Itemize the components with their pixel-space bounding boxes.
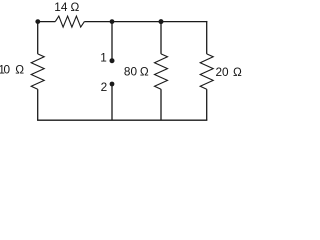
wire: 80 ohm branch upper segment [160,22,162,54]
junction dot: top rail above 80 ohm branch [159,19,164,24]
svg-text:Ω: Ω [71,0,80,14]
wire: top rail left segment [38,21,56,23]
wire: left branch lower segment [37,89,39,120]
resistor R1 14 ohm (horizontal zigzag) [55,16,84,27]
svg-text:Ω: Ω [15,62,24,76]
svg-text:80: 80 [124,64,138,78]
resistor R2 10 ohm (left vertical zigzag) [31,54,44,89]
resistor R4 20 ohm (right vertical zigzag) [200,54,213,89]
svg-text:2: 2 [101,80,108,94]
resistor R3 80 ohm (middle vertical zigzag) [155,54,168,89]
node 2 terminal dot [110,82,115,87]
wire: 20 ohm branch upper segment (right side drop) [206,21,208,54]
wire: terminal branch lower segment (from node 2) [111,84,113,120]
wire: 20 ohm branch lower segment [206,89,208,120]
junction dot: top-left node [35,19,40,24]
svg-text:20: 20 [216,65,230,79]
svg-text:Ω: Ω [140,64,149,78]
svg-text:Ω: Ω [233,65,242,79]
wire: left branch upper segment [37,22,39,54]
wire: bottom rail [37,119,207,121]
wire: top rail right segment [84,21,207,23]
wire: 80 ohm branch lower segment [160,89,162,120]
svg-text:1: 1 [100,51,107,65]
junction dot: top rail above terminal branch [110,19,115,24]
svg-text:14: 14 [54,0,68,14]
wire: terminal branch upper segment (to node 1) [111,22,113,59]
svg-text:10: 10 [0,62,10,76]
node 1 terminal dot [110,58,115,63]
